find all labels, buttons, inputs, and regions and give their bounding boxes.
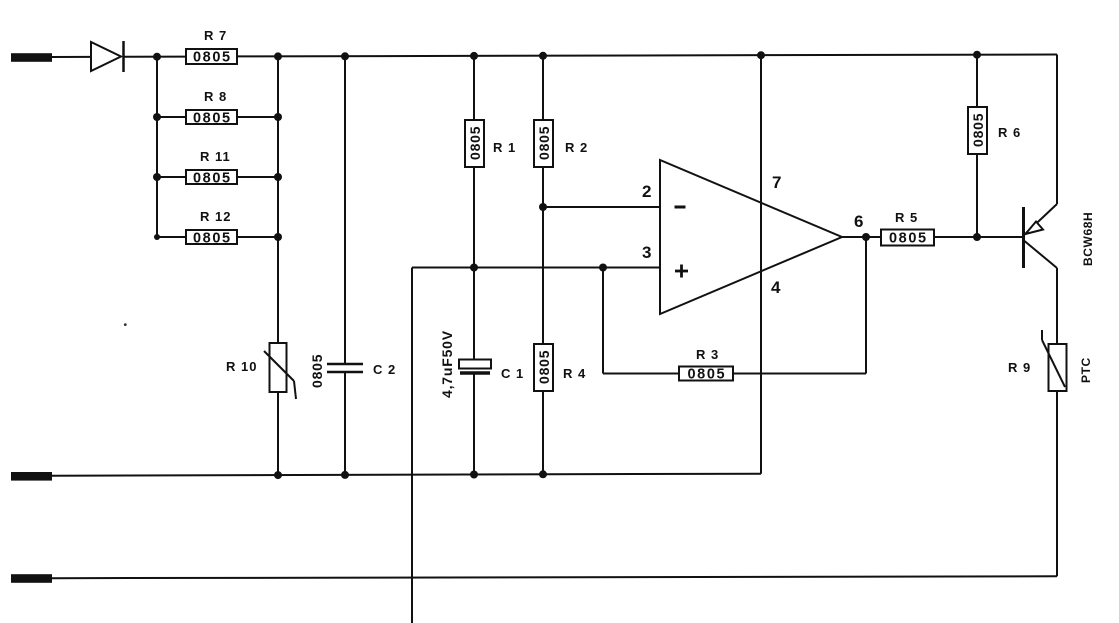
svg-text:0805: 0805 [309,354,325,388]
resistor R3 [679,367,733,381]
wire op-amp pin3 [412,267,660,269]
capacitor C2 [327,56,363,475]
node junction dots [153,51,981,479]
svg-text:4,7uF50V: 4,7uF50V [439,330,455,398]
capacitor C1 electrolytic [459,268,491,475]
wire [124,56,187,58]
wire feedback right [733,237,866,374]
svg-text:R 5: R 5 [895,210,918,225]
wire op-amp pin2 [543,206,660,208]
wire op-amp output [842,236,881,238]
wire mid rail [51,474,761,476]
wire emitter to rail [1056,55,1058,205]
wire ladder left vertical [156,57,158,237]
resistor R6 [968,55,987,237]
wire feedback drop [602,268,604,374]
diode D1 [91,41,124,72]
svg-text:3: 3 [642,243,651,262]
terminal top-left [11,53,52,62]
svg-text:R 9: R 9 [1008,360,1031,375]
wire bottom rail [51,576,1057,578]
resistor R12 [157,230,278,244]
terminal mid-left [11,472,52,481]
svg-text:2: 2 [642,182,651,201]
resistor R10 (VDR) [264,343,296,399]
svg-text:0805: 0805 [193,111,232,127]
wire op-amp power 7/4 [760,55,762,474]
wire feedback [603,373,679,375]
svg-text:R 1: R 1 [493,140,516,155]
svg-text:C 1: C 1 [501,366,524,381]
svg-text:0805: 0805 [193,231,232,247]
svg-text:0805: 0805 [193,50,232,66]
wire [51,56,91,58]
resistor R1 [465,56,484,268]
svg-text:R 6: R 6 [998,125,1021,140]
terminal bottom-left [11,574,52,583]
svg-text:7: 7 [772,173,781,192]
resistor R9 (PTC) [1042,330,1067,391]
svg-text:R 11: R 11 [200,149,231,164]
svg-text:6: 6 [854,212,863,231]
svg-text:0805: 0805 [536,350,552,384]
wire [542,167,544,344]
svg-text:0805: 0805 [970,113,986,147]
resistor R5 [881,230,1022,246]
wire top rail [237,55,1057,57]
resistor R8 [157,110,278,124]
transistor Q1 BCW68H [1024,204,1058,268]
svg-text:0805: 0805 [193,171,232,187]
wire collector down [1056,268,1058,344]
svg-text:R 7: R 7 [204,28,227,43]
svg-text:0805: 0805 [467,126,483,160]
svg-text:4: 4 [771,278,781,297]
opamp plus sign [675,265,688,278]
svg-text:0805: 0805 [536,126,552,160]
wire [1056,391,1058,576]
svg-text:0805: 0805 [688,367,727,383]
svg-text:R 10: R 10 [226,359,257,374]
resistor R4 [534,344,553,474]
svg-text:BCW68H: BCW68H [1081,212,1095,266]
svg-text:0805: 0805 [889,231,928,247]
opamp minus sign [675,206,686,209]
resistor R7 [186,49,237,64]
resistor R11 [157,170,278,184]
wire ladder right vertical [277,56,279,343]
svg-text:PTC: PTC [1079,357,1093,383]
wire vertical offpage [411,268,413,623]
wire [277,392,279,475]
svg-text:R 8: R 8 [204,89,227,104]
svg-text:R 2: R 2 [565,140,588,155]
svg-text:R 4: R 4 [563,366,586,381]
svg-text:R 3: R 3 [696,347,719,362]
svg-text:C 2: C 2 [373,362,396,377]
op-amp U1 [660,160,842,314]
svg-text:R 12: R 12 [200,209,231,224]
resistor R2 [534,56,553,167]
